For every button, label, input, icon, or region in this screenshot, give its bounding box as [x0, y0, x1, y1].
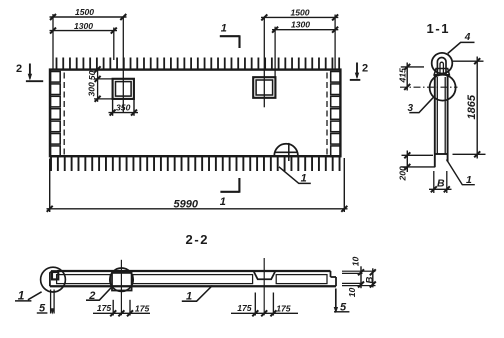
centerline through notch [263, 258, 265, 315]
svg-text:175: 175 [97, 303, 112, 313]
centerline through circle 2 [120, 260, 122, 316]
right edge key rectangles [331, 72, 341, 157]
svg-text:175: 175 [135, 304, 150, 314]
svg-text:175: 175 [276, 303, 291, 313]
extension line x=335.1 [334, 15, 336, 70]
svg-text:1: 1 [466, 174, 472, 186]
left edge key rectangles [51, 72, 61, 157]
right hidden dashed line [326, 73, 328, 155]
panel outline (plan view) [50, 70, 340, 157]
svg-text:10: 10 [351, 257, 361, 267]
dimension 1300 left [50, 28, 118, 34]
svg-text:4: 4 [464, 32, 471, 43]
core void rect C [276, 275, 327, 284]
leader 1 (arc detail) [279, 167, 311, 184]
bottom edge hatch ticks [51, 156, 340, 171]
dimension 1500 left [50, 14, 127, 20]
bar right end step [331, 271, 337, 286]
svg-text:2: 2 [16, 63, 22, 75]
dimension B (1-1 bottom) [429, 171, 452, 193]
detail circle 3 [430, 75, 456, 101]
svg-text:В: В [437, 178, 445, 190]
core void rect A [57, 275, 111, 284]
centerline through left square [122, 17, 124, 113]
dimension 5990 [47, 158, 348, 212]
bar left end [50, 271, 59, 286]
dimension 350 under left square [109, 99, 139, 116]
dimension 5 right [335, 289, 337, 312]
opening square right (lifting loop recess) [253, 77, 275, 98]
svg-text:3: 3 [408, 103, 414, 114]
leader 1 (left end detail) [15, 292, 42, 301]
dimension 5 left [51, 290, 55, 314]
svg-text:10: 10 [347, 288, 357, 298]
bar bottom line [50, 285, 336, 287]
svg-text:300: 300 [87, 82, 97, 97]
loop anchor box in circle 2 [112, 273, 132, 291]
section mark 1 top [220, 35, 240, 48]
section mark 2 right [350, 63, 361, 80]
detail circle 4 (lifting loop) [432, 53, 453, 74]
middle notch [254, 271, 276, 279]
section mark 2 left [26, 64, 43, 82]
section mark 1 bottom [220, 178, 239, 193]
svg-text:1: 1 [221, 23, 227, 35]
panel body in section 1-1 [435, 75, 448, 167]
detail circle 2 (loop in section) [110, 268, 133, 291]
svg-text:2: 2 [362, 63, 368, 75]
dash-dot centerline through circle 3 [400, 86, 458, 88]
svg-text:1: 1 [18, 289, 25, 303]
top edge hatch ticks [57, 58, 340, 70]
opening square left (lifting loop recess) [113, 79, 134, 99]
svg-text:В: В [364, 277, 375, 284]
leader 4 [448, 42, 475, 53]
lifting loop profile [437, 57, 446, 74]
detail circle 1 (left end) [41, 267, 66, 292]
svg-text:1500: 1500 [75, 7, 94, 17]
extension line x=275.1 [274, 27, 276, 77]
svg-text:1300: 1300 [74, 21, 93, 31]
dimension 1300 right [272, 27, 338, 33]
leader 1 (1-1 bottom) [447, 160, 475, 185]
dimensions 175/175 at notch [231, 293, 298, 317]
dimensions 175/175 at loop [93, 300, 150, 317]
svg-text:5990: 5990 [174, 199, 199, 211]
svg-text:1500: 1500 [290, 7, 309, 17]
dimension 1865 [453, 57, 486, 159]
centerline through right square [263, 17, 265, 107]
panel top wedge in section [434, 69, 449, 75]
dimension 1500 right [261, 14, 338, 20]
leader 1 (bar mid) [182, 286, 213, 302]
svg-text:175: 175 [237, 303, 252, 313]
svg-text:5: 5 [39, 303, 46, 315]
svg-text:1: 1 [301, 173, 307, 185]
svg-text:1: 1 [186, 290, 192, 302]
svg-text:200: 200 [398, 166, 408, 182]
drain arc detail on bottom edge [274, 143, 298, 161]
svg-text:50: 50 [87, 70, 97, 80]
core void rect B [133, 275, 253, 284]
svg-text:2-2: 2-2 [186, 232, 210, 247]
svg-text:1: 1 [220, 196, 226, 208]
leader 2 (loop detail) [86, 288, 111, 301]
svg-text:415: 415 [397, 68, 407, 84]
side dimensions 50/300 of left square [94, 66, 113, 102]
bar top line [57, 270, 331, 272]
svg-text:350: 350 [116, 103, 131, 113]
svg-text:2: 2 [88, 290, 95, 302]
dimension 200 [402, 151, 436, 173]
svg-text:5: 5 [340, 301, 347, 313]
svg-text:1-1: 1-1 [427, 21, 451, 36]
svg-text:1865: 1865 [466, 94, 478, 119]
dimension 415 [401, 63, 424, 91]
svg-text:1300: 1300 [291, 20, 310, 30]
extension line x=113.8 [113, 28, 115, 61]
leader 3 [409, 97, 434, 113]
thickness dimensions 10/B/10 [342, 271, 376, 285]
left hidden dashed line [63, 73, 65, 155]
extension line x=53 [52, 14, 54, 70]
